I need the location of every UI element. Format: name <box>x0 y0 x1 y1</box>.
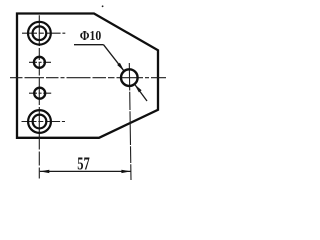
leader shoulder under PHI10 <box>74 44 104 46</box>
svg-text:Φ10: Φ10 <box>80 29 102 44</box>
center line of hole C4 <box>22 121 66 123</box>
center line of hole C2 <box>29 61 51 63</box>
svg-text:57: 57 <box>77 154 90 174</box>
counterbored hole C1 inner circle <box>33 26 47 40</box>
leader diagonal to hole D1 <box>104 45 124 71</box>
plate outline <box>17 14 158 138</box>
leader tail line lower right <box>135 85 147 101</box>
dimension arrowhead right <box>121 170 130 173</box>
counterbored hole C1 outer circle <box>28 22 51 45</box>
center line vertical through left holes (extension line for 57) <box>38 15 40 178</box>
center line of hole C1 <box>22 32 65 34</box>
small hole C3 <box>34 88 45 99</box>
dimension line 57 <box>40 170 131 172</box>
counterbored hole C4 inner circle <box>33 115 47 129</box>
counterbored hole C4 outer circle <box>28 110 51 133</box>
main horizontal center line <box>10 77 166 79</box>
leader opposite arrowhead at hole D1 lower right <box>134 84 141 92</box>
small hole C2 <box>34 57 45 68</box>
scan speck <box>102 5 104 7</box>
leader arrowhead at hole D1 upper left <box>117 63 124 71</box>
dimension arrowhead left <box>40 170 50 173</box>
center line of hole C3 <box>29 92 51 94</box>
hole D1 (diameter 10) <box>121 69 138 86</box>
center line vertical of hole D1 (extension line for 57) <box>129 63 131 180</box>
